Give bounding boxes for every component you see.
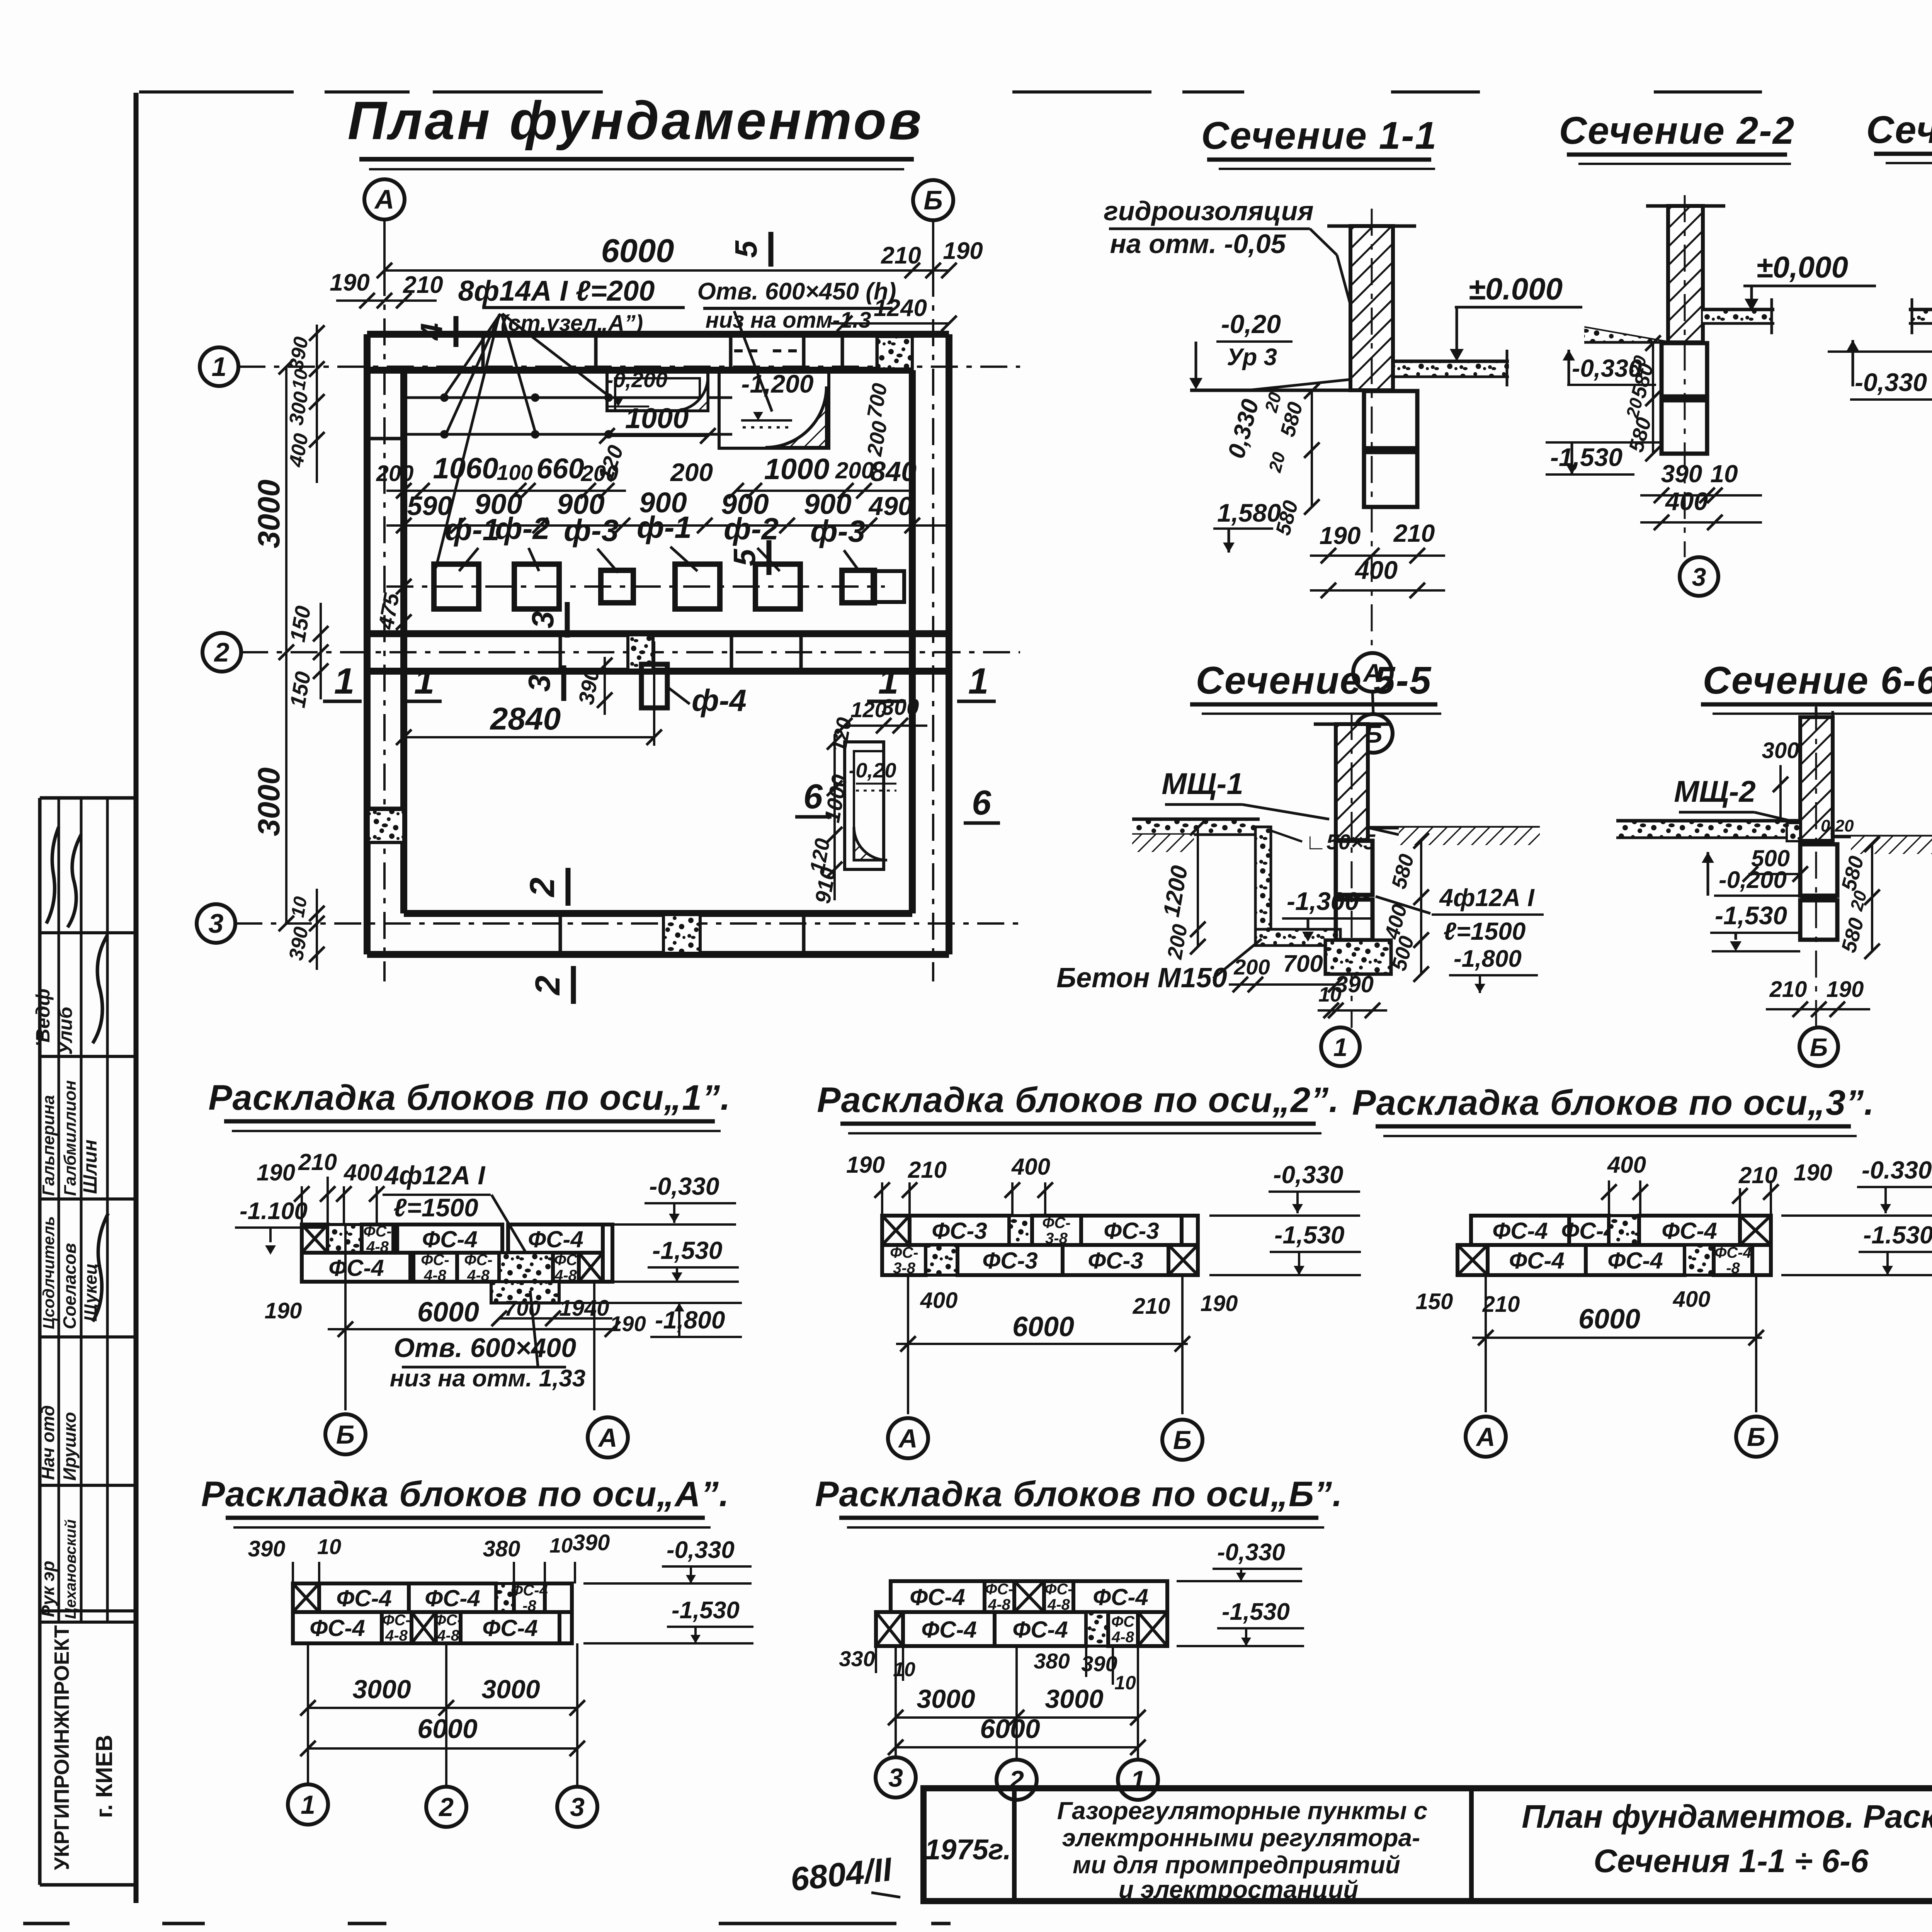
footings centerline [386, 585, 885, 588]
svg-text:6000: 6000 [417, 1714, 478, 1744]
svg-text:190: 190 [330, 269, 369, 296]
section 6-6 foundation blocks [1800, 844, 1837, 940]
footing squares row [434, 564, 904, 609]
layout axis1 top dims [257, 1149, 384, 1224]
section cut labels 2 [523, 868, 573, 1004]
axis line 1 horizontal [238, 366, 1020, 368]
svg-text:-1,800: -1,800 [1454, 946, 1522, 972]
section mark 3 lower [522, 665, 564, 701]
svg-text:Раскладка блоков по оси„А”.: Раскладка блоков по оси„А”. [201, 1475, 730, 1514]
annotation 8f14AI l=200 [458, 275, 685, 336]
svg-text:-0,330: -0,330 [649, 1172, 719, 1200]
sheet frame left border [134, 93, 139, 1903]
section 5-5 bottom pad speckled [1325, 940, 1391, 974]
svg-text:3000: 3000 [481, 1675, 540, 1704]
layout axisA bottom dims [300, 1643, 585, 1786]
svg-text:Соеласов: Соеласов [60, 1243, 80, 1329]
svg-text:1940: 1940 [559, 1296, 609, 1321]
svg-text:10: 10 [549, 1534, 573, 1557]
plan outer wall bottom [367, 913, 949, 954]
svg-text:6000: 6000 [1012, 1311, 1074, 1342]
svg-text:190: 190 [1794, 1160, 1832, 1185]
svg-text:190: 190 [265, 1298, 302, 1323]
svg-text:2840: 2840 [490, 701, 561, 736]
svg-text:0,20: 0,20 [1821, 816, 1854, 835]
layout axis2 circles A B [888, 1418, 1202, 1460]
svg-text:1060: 1060 [433, 452, 498, 485]
svg-text:1: 1 [414, 661, 435, 702]
svg-text:низ на отм. 1,33: низ на отм. 1,33 [390, 1365, 586, 1392]
room top right 2 [719, 369, 829, 448]
svg-text:А: А [898, 1424, 917, 1453]
svg-text:1: 1 [334, 661, 355, 702]
dim 190 210 left top [330, 269, 443, 308]
svg-text:ФС-4: ФС-4 [336, 1585, 392, 1611]
svg-text:3000: 3000 [1045, 1684, 1103, 1714]
svg-text:Шлин: Шлин [79, 1139, 101, 1194]
svg-text:-0,20: -0,20 [849, 759, 896, 782]
svg-text:ФС-4: ФС-4 [328, 1255, 384, 1281]
svg-text:200: 200 [1233, 955, 1270, 979]
axis circle A top [364, 179, 405, 219]
axis line 2 horizontal [241, 651, 1020, 653]
svg-text:700: 700 [1283, 951, 1323, 977]
svg-text:-1,530: -1,530 [1550, 443, 1622, 471]
svg-text:ФС-4: ФС-4 [482, 1615, 538, 1641]
svg-text:Сечение 6-6: Сечение 6-6 [1703, 659, 1932, 702]
left strip signatures scribbles [32, 827, 107, 1194]
svg-text:Сечение 5-5: Сечение 5-5 [1196, 659, 1432, 702]
svg-text:ф-3: ф-3 [564, 513, 619, 548]
svg-text:4-8: 4-8 [437, 1627, 460, 1644]
svg-text:190: 190 [1201, 1291, 1238, 1316]
axis line A vertical [383, 219, 386, 981]
svg-text:Галбмиллион: Галбмиллион [61, 1080, 80, 1196]
dim 390 10 300 400 left rotated [285, 325, 325, 483]
dim 1000 room1 [599, 402, 716, 444]
svg-text:ФС-4: ФС-4 [1012, 1617, 1068, 1643]
section 5-5 level -1.300 [1282, 887, 1371, 942]
title block frame [923, 1788, 1932, 1901]
svg-text:Раскладка блоков по оси„3”.: Раскладка блоков по оси„3”. [1352, 1083, 1874, 1122]
svg-text:Б: Б [1173, 1425, 1192, 1455]
svg-text:ФС-4: ФС-4 [1662, 1218, 1717, 1244]
annotation Otv 600x450 [697, 278, 896, 412]
svg-text:3: 3 [209, 908, 224, 939]
svg-text:ФС-4: ФС-4 [910, 1584, 965, 1610]
svg-text:-1,530: -1,530 [1715, 901, 1787, 930]
layout axis1 bottom dims [265, 1225, 646, 1410]
svg-text:А: А [1475, 1422, 1495, 1452]
svg-text:Нач отд: Нач отд [38, 1405, 58, 1480]
svg-text:10: 10 [317, 1534, 341, 1559]
svg-text:ФС-4: ФС-4 [1714, 1244, 1752, 1261]
section 5-5 axis circle 1 [1321, 1027, 1360, 1066]
left strip row labels rotated [38, 1080, 108, 1619]
section 2-2 title [1559, 109, 1795, 164]
svg-text:План фундаментов. Раскладка бл: План фундаментов. Раскладка блоков. [1522, 1798, 1932, 1835]
svg-text:-0,20: -0,20 [1221, 310, 1281, 339]
svg-text:380: 380 [483, 1536, 520, 1561]
svg-text:Раскладка блоков по оси„Б”.: Раскладка блоков по оси„Б”. [815, 1475, 1343, 1514]
layout axisA title [201, 1475, 730, 1527]
svg-text:Б: Б [1747, 1422, 1765, 1452]
sheet bottom edge dashes [23, 1922, 951, 1925]
svg-text:100: 100 [497, 460, 532, 485]
svg-text:6: 6 [803, 777, 823, 816]
interior lines below top wall with rebar dots [404, 393, 732, 439]
layout axisA circles 1 2 3 [288, 1784, 597, 1827]
plan middle wall axis2 [367, 634, 949, 671]
section 6-6 centerline [1815, 703, 1817, 1028]
section 6-6 title [1701, 659, 1932, 714]
svg-text:ФС-3: ФС-3 [982, 1248, 1038, 1274]
svg-text:330: 330 [839, 1646, 875, 1671]
section 2-2 level 0.000 [1743, 250, 1876, 311]
axis circle B top [913, 180, 953, 220]
title block project name [1057, 1797, 1428, 1903]
section 5-5 foundation blocks [1336, 841, 1372, 940]
middle wall speckle block [628, 635, 653, 670]
section 1-1 ground line [1190, 379, 1351, 390]
svg-text:План фундаментов: План фундаментов [347, 90, 923, 151]
svg-text:МЩ-1: МЩ-1 [1162, 767, 1243, 801]
svg-text:ФС-4: ФС-4 [1607, 1248, 1663, 1274]
svg-text:ФС-: ФС- [363, 1223, 391, 1240]
svg-text:400: 400 [1354, 556, 1398, 584]
svg-text:1: 1 [1333, 1033, 1348, 1061]
svg-text:210: 210 [1393, 519, 1435, 547]
svg-text:-0.330: -0.330 [1862, 1156, 1932, 1184]
svg-text:-0,330: -0,330 [667, 1537, 735, 1563]
leader fan to rebar dots [436, 314, 607, 568]
section 1-1 foundation blocks [1364, 391, 1417, 507]
svg-text:-1.530: -1.530 [1863, 1221, 1932, 1249]
svg-text:6000: 6000 [417, 1297, 479, 1328]
layout axisA block rows [293, 1582, 572, 1644]
section 5-5 ground right [1368, 828, 1540, 845]
footing labels f1 f2 f3 [445, 510, 865, 573]
section 1-1 axis circles A B [1353, 653, 1393, 753]
svg-text:Улиб: Улиб [54, 1006, 76, 1055]
svg-text:-1,800: -1,800 [655, 1306, 725, 1334]
svg-text:МЩ-2: МЩ-2 [1674, 774, 1755, 808]
layout axis3 block rows [1458, 1216, 1771, 1277]
svg-text:400: 400 [1673, 1287, 1711, 1312]
axis circle 3 left [197, 904, 235, 943]
layout axisA top dims [248, 1530, 610, 1583]
svg-text:400: 400 [920, 1288, 958, 1313]
svg-text:210: 210 [881, 242, 921, 269]
layout axis2 bottom dims [896, 1275, 1238, 1414]
dim 10 390 bottom left rotated [285, 889, 325, 970]
svg-text:390: 390 [248, 1536, 286, 1561]
svg-text:-8: -8 [1726, 1260, 1740, 1277]
section 3-3 floor slabs [1909, 298, 1932, 334]
svg-text:1,580: 1,580 [1217, 498, 1281, 527]
layout axisB block rows [876, 1581, 1167, 1646]
svg-text:190: 190 [846, 1152, 885, 1178]
svg-text:гидроизоляция: гидроизоляция [1104, 196, 1313, 226]
section 5-5 MShch-1 label [1162, 767, 1329, 819]
svg-text:210: 210 [403, 272, 443, 298]
svg-text:6: 6 [972, 784, 992, 822]
door arc room2 hatched [765, 386, 827, 447]
main title Plan fundamentov [347, 90, 923, 169]
svg-text:Бетон М150: Бетон М150 [1056, 963, 1227, 993]
svg-text:2: 2 [523, 878, 562, 898]
svg-text:Щукец: Щукец [80, 1263, 100, 1321]
svg-text:ФС-4: ФС-4 [422, 1226, 478, 1252]
svg-text:Гальперина: Гальперина [39, 1095, 58, 1196]
svg-text:10: 10 [1710, 460, 1738, 488]
svg-text:-1,530: -1,530 [652, 1236, 722, 1264]
svg-text:1: 1 [301, 1790, 315, 1820]
svg-text:на отм. -0,05: на отм. -0,05 [1110, 229, 1286, 259]
svg-text:Сечения 1-1 ÷ 6-6: Сечения 1-1 ÷ 6-6 [1594, 1843, 1869, 1879]
svg-text:190: 190 [610, 1311, 646, 1336]
svg-text:Раскладка блоков по оси„1”.: Раскладка блоков по оси„1”. [208, 1078, 731, 1117]
svg-text:Отв. 600×400: Отв. 600×400 [394, 1333, 576, 1363]
layout axisB right levels [1177, 1539, 1304, 1646]
left title strip table [40, 798, 136, 1885]
section 3-3 level -0.330 left [1828, 340, 1932, 400]
svg-text:390: 390 [1661, 460, 1702, 488]
svg-text:Сечение 3-3: Сечение 3-3 [1866, 108, 1932, 151]
svg-text:3000: 3000 [252, 480, 286, 548]
dim 210 190 right top [881, 238, 983, 269]
section 5-5 right dims rotated [1380, 833, 1429, 982]
svg-text:2: 2 [214, 637, 230, 667]
dim 6000 top [377, 219, 957, 286]
svg-text:ФС: ФС [1111, 1613, 1135, 1630]
section 1-1 title [1201, 114, 1437, 169]
svg-text:1000: 1000 [764, 453, 829, 486]
svg-text:ФС-: ФС- [421, 1252, 449, 1269]
dim row 200 1060 100 660 200 [376, 452, 626, 498]
section mark 4 [414, 316, 456, 347]
svg-text:ФС-3: ФС-3 [932, 1218, 987, 1244]
svg-text:ФС-: ФС- [1044, 1581, 1073, 1598]
svg-text:±0,000: ±0,000 [1756, 250, 1848, 284]
section 5-5 trench walls speckled [1255, 827, 1340, 946]
svg-text:4-8: 4-8 [385, 1627, 408, 1644]
svg-text:-0,330: -0,330 [1217, 1539, 1285, 1566]
svg-text:-0,200: -0,200 [606, 367, 668, 392]
door arc room1 hatched [674, 377, 708, 411]
section 6-6 bottom dims [1766, 977, 1870, 1017]
svg-text:10: 10 [288, 367, 312, 391]
svg-text:-1.100: -1.100 [240, 1198, 308, 1225]
svg-text:ФС-4: ФС-4 [511, 1582, 548, 1599]
svg-text:ФС-3: ФС-3 [1104, 1218, 1159, 1244]
section 6-6 dim 300 top [1762, 738, 1799, 819]
layout axis1 right levels [559, 1172, 742, 1337]
svg-text:ФС-: ФС- [890, 1244, 918, 1261]
axis line B vertical [932, 220, 934, 981]
svg-text:210: 210 [1133, 1294, 1170, 1319]
svg-text:ФС-4: ФС-4 [528, 1226, 583, 1252]
svg-text:200: 200 [376, 461, 414, 486]
section mark 3 upper [526, 602, 567, 638]
svg-text:4-8: 4-8 [1111, 1629, 1134, 1646]
svg-text:УКРГИПРОИНЖПРОЕКТ: УКРГИПРОИНЖПРОЕКТ [50, 1625, 73, 1870]
svg-text:Отв. 600×450 (h): Отв. 600×450 (h) [697, 278, 896, 305]
svg-text:6000: 6000 [601, 233, 674, 269]
svg-text:ф-1: ф-1 [445, 512, 500, 547]
svg-text:700: 700 [504, 1296, 540, 1320]
svg-text:-0,330: -0,330 [1855, 368, 1927, 396]
section 1-1 bottom dims [1310, 519, 1445, 598]
section 6-6 right dims rotated [1837, 837, 1880, 959]
svg-text:300: 300 [882, 695, 919, 720]
layout axis1 block rows [302, 1223, 612, 1284]
section 6-6 level -1.530 [1710, 901, 1800, 951]
svg-text:Цсодлчитель: Цсодлчитель [39, 1216, 58, 1329]
svg-text:Цехановский: Цехановский [62, 1519, 79, 1619]
svg-text:10: 10 [287, 895, 311, 919]
section 5-5 wall hatched [1314, 724, 1391, 840]
section 5-5 ground left with slab [1132, 819, 1260, 852]
section 5-5 beton M150 label [1056, 939, 1262, 993]
layout axis1 otv label [390, 1291, 586, 1392]
section 5-5 title [1190, 659, 1441, 714]
top wall block joints [483, 334, 877, 370]
svg-text:400: 400 [344, 1160, 383, 1185]
svg-text:г. КИЕВ: г. КИЕВ [91, 1735, 117, 1818]
svg-text:ми для промпредприятий: ми для промпредприятий [1073, 1851, 1400, 1879]
svg-text:±0.000: ±0.000 [1468, 272, 1563, 306]
svg-text:-1,530: -1,530 [672, 1597, 740, 1624]
svg-text:3: 3 [1692, 563, 1706, 591]
svg-text:3000: 3000 [252, 767, 286, 836]
footing f4 [641, 641, 747, 746]
door arc room3 hatched [854, 827, 887, 860]
svg-text:380: 380 [1034, 1649, 1070, 1673]
svg-text:150: 150 [1416, 1289, 1453, 1314]
svg-text:210: 210 [908, 1157, 947, 1183]
svg-text:10: 10 [1114, 1672, 1136, 1694]
svg-text:400: 400 [1011, 1154, 1050, 1180]
svg-text:ФС-4: ФС-4 [1492, 1218, 1548, 1244]
room top right 1 [606, 367, 708, 411]
layout axisB left-bottom dims [839, 1646, 1136, 1694]
svg-text:190: 190 [1827, 977, 1864, 1002]
layout axis2 top dims [846, 1152, 1053, 1216]
layout axisB title [815, 1475, 1343, 1527]
layout axis1 level -1.100 [235, 1198, 325, 1255]
svg-text:660: 660 [536, 452, 584, 485]
svg-text:3-8: 3-8 [893, 1260, 916, 1277]
bottom wall joints and speckle [560, 913, 804, 954]
svg-text:Рук эр: Рук эр [38, 1561, 58, 1617]
section 2-2 floor slab [1703, 298, 1774, 334]
svg-text:ФС-4: ФС-4 [425, 1585, 480, 1611]
svg-text:ФС-: ФС- [382, 1612, 410, 1629]
layout axis1 hole block below [491, 1282, 559, 1303]
section 1-1 floor slab [1393, 350, 1509, 386]
axis line 3 horizontal [235, 922, 1020, 925]
svg-text:ф-4: ф-4 [692, 683, 747, 718]
document number 6804 [789, 1850, 900, 1898]
svg-text:390: 390 [573, 1530, 610, 1555]
section cut labels 1-1 row [323, 661, 996, 702]
svg-text:190: 190 [1320, 522, 1361, 549]
svg-text:ф-1: ф-1 [637, 510, 692, 544]
svg-text:А: А [597, 1423, 617, 1452]
svg-text:низ на отм-1.3: низ на отм-1.3 [706, 308, 871, 333]
svg-text:1: 1 [212, 352, 227, 382]
svg-text:ФС-3: ФС-3 [1088, 1248, 1143, 1274]
svg-text:6000: 6000 [1578, 1304, 1640, 1335]
section 1-1 left level -0.20 [1189, 310, 1293, 389]
svg-text:А: А [374, 184, 395, 214]
svg-text:электронными регулятора-: электронными регулятора- [1062, 1824, 1420, 1852]
svg-text:ФС-4: ФС-4 [310, 1615, 365, 1641]
svg-text:400: 400 [1665, 487, 1708, 515]
svg-text:ФС-: ФС- [464, 1252, 492, 1269]
layout axis3 title [1352, 1083, 1874, 1136]
section 1-1 left dims [1213, 383, 1320, 553]
layout axis1 rebar label [383, 1161, 526, 1252]
axis circle 2 left [202, 633, 241, 672]
svg-text:Б: Б [336, 1420, 355, 1449]
svg-text:200: 200 [670, 458, 713, 486]
svg-text:Ур 3: Ур 3 [1227, 344, 1277, 371]
layout axis1 title [208, 1078, 731, 1131]
svg-text:190: 190 [943, 238, 983, 264]
layout axis2 block rows [882, 1214, 1198, 1277]
svg-text:210: 210 [1769, 977, 1807, 1002]
section 6-6 ground right [1833, 837, 1932, 854]
section 1-1 centerline [1371, 209, 1373, 652]
section 2-2 wall hatched [1646, 206, 1725, 342]
layout axis3 bottom dims [1416, 1275, 1764, 1412]
svg-text:-1,530: -1,530 [1222, 1599, 1290, 1625]
layout axis3 circles A B [1466, 1417, 1776, 1457]
svg-text:5: 5 [729, 240, 763, 258]
svg-text:400: 400 [1607, 1152, 1646, 1178]
left wall joints and speckle [367, 439, 404, 842]
layout axisB bottom dims [888, 1646, 1146, 1758]
section 1-1 wall hatched [1327, 226, 1416, 390]
dim 2840 [396, 701, 662, 745]
layout axis2 right levels [1209, 1161, 1361, 1275]
svg-text:210: 210 [1482, 1292, 1520, 1317]
svg-text:ф-3: ф-3 [810, 514, 865, 548]
section cut labels 6 [795, 777, 1000, 823]
svg-text:Газорегуляторные пункты с: Газорегуляторные пункты с [1057, 1797, 1428, 1825]
dim row 590 900x5 490 [386, 486, 949, 533]
svg-text:Ирушко: Ирушко [60, 1412, 80, 1481]
svg-text:300: 300 [1762, 738, 1799, 763]
svg-text:1975г.: 1975г. [925, 1833, 1011, 1866]
section 1-1 gidroizolyaciya label [1104, 196, 1371, 381]
section 2-2 axis circle 3 [1680, 557, 1718, 596]
svg-text:2: 2 [529, 976, 567, 996]
dim 200 700 rotated right [863, 381, 892, 458]
svg-text:200: 200 [581, 461, 619, 486]
svg-text:4-8: 4-8 [423, 1267, 447, 1284]
section 2-2 bottom dims [1640, 460, 1762, 530]
svg-text:-0,330: -0,330 [1273, 1161, 1343, 1189]
section mark 5 lower [727, 540, 769, 575]
svg-text:ФС: ФС [554, 1252, 578, 1269]
svg-text:3: 3 [570, 1793, 585, 1822]
section 5-5 centerline [1351, 713, 1353, 1028]
section 2-2 right dims rotated [1622, 335, 1661, 461]
section mark 5 top [729, 232, 771, 267]
